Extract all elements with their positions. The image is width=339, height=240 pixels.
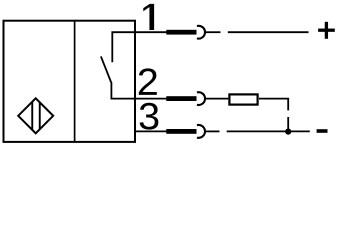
sensor body box xyxy=(4,21,136,142)
junction dot xyxy=(285,129,291,135)
minus terminal xyxy=(317,129,328,133)
switch Q top lead xyxy=(112,32,135,62)
wire to plus xyxy=(228,31,309,33)
wire resistor to corner xyxy=(259,99,288,111)
wire to minus xyxy=(227,130,310,132)
pin label 2 xyxy=(139,68,157,95)
wire pin3 to plug xyxy=(135,130,167,132)
socket arc pin1 xyxy=(197,26,205,39)
pin 2 contact bar xyxy=(166,96,196,101)
pin 1 contact bar xyxy=(166,30,196,35)
pin 3 contact bar xyxy=(166,129,196,134)
stub after socket 1 xyxy=(205,31,221,33)
wire pin2 to plug xyxy=(135,98,167,100)
pin label 1 xyxy=(143,4,154,30)
load resistor xyxy=(229,94,257,104)
wire pin1 to plug xyxy=(135,31,167,33)
switch bottom lead xyxy=(111,82,135,98)
socket arc pin2 xyxy=(197,92,205,105)
dashed drop to minus line xyxy=(287,117,289,131)
pin label 3 xyxy=(140,103,159,130)
diamond left chord xyxy=(31,102,33,130)
switch blade xyxy=(101,56,112,83)
plus terminal xyxy=(318,22,335,39)
socket arc pin3 xyxy=(197,125,205,138)
diamond right chord xyxy=(39,102,41,129)
proximity sensor diamond xyxy=(18,98,53,133)
body divider xyxy=(74,21,76,142)
wire socket2 to resistor xyxy=(205,98,228,100)
stub after socket 3 xyxy=(205,130,220,132)
